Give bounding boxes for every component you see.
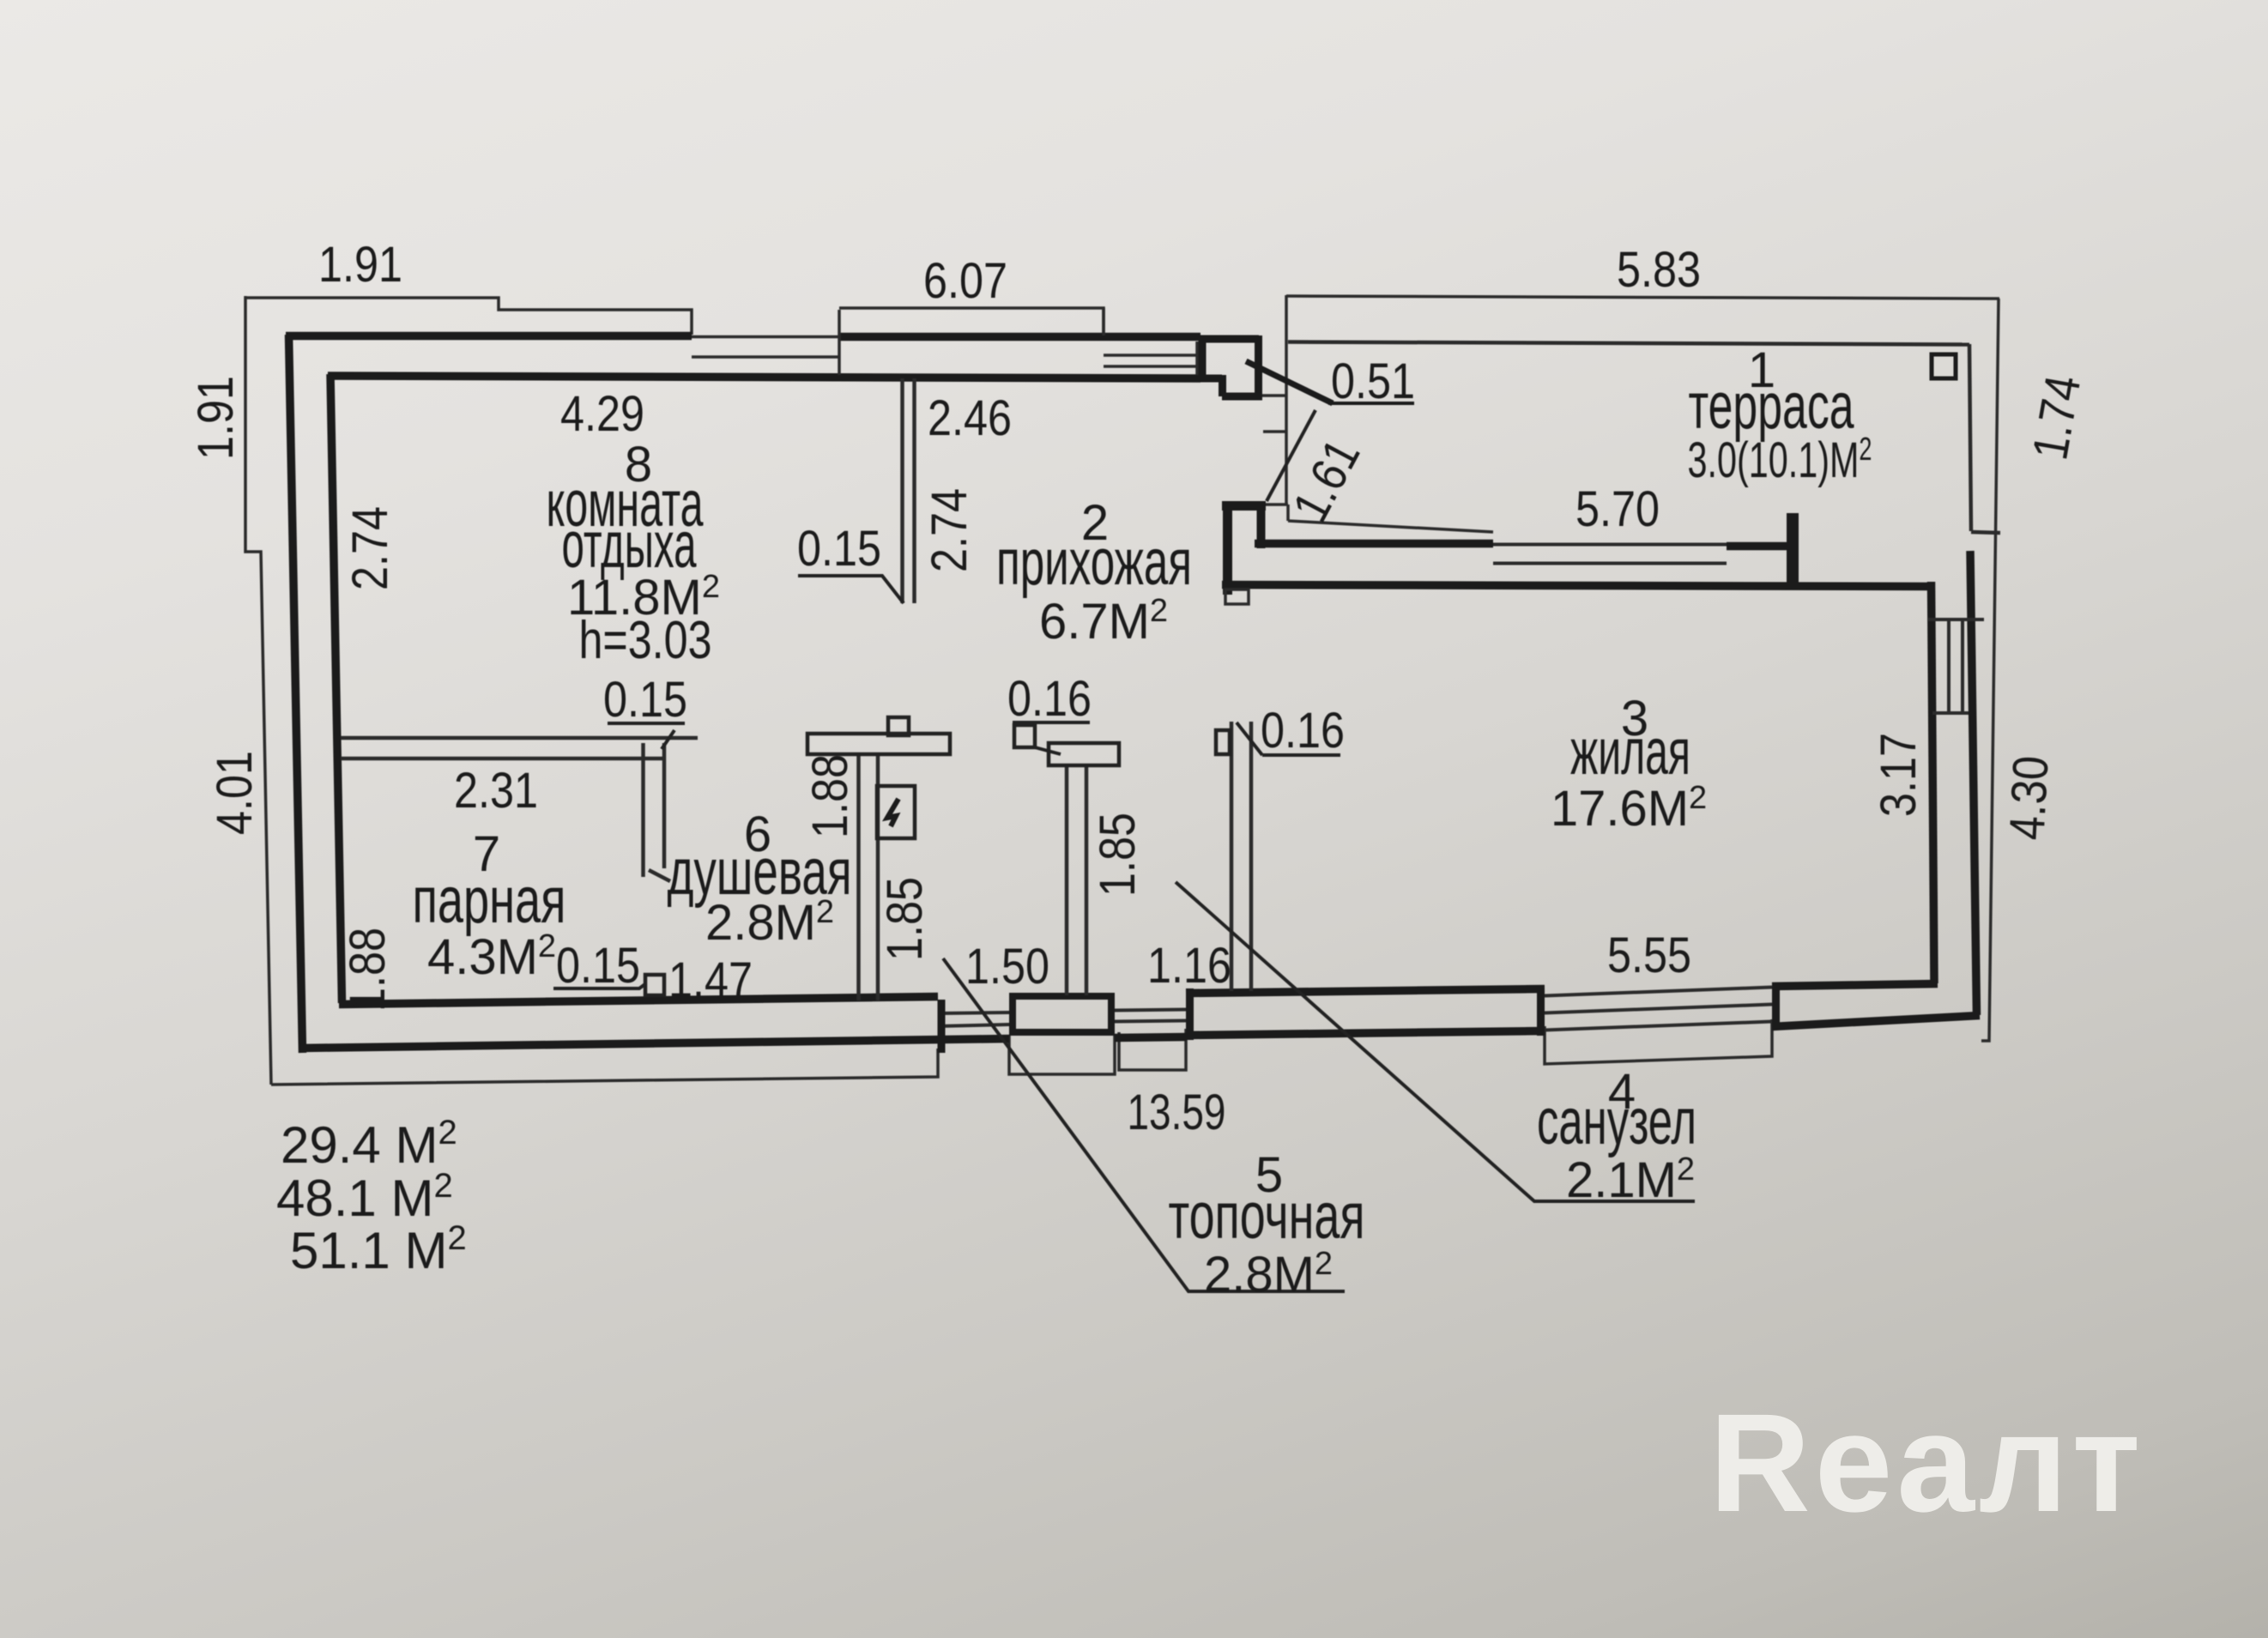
svg-text:прихожая: прихожая <box>996 526 1192 599</box>
svg-text:2.46: 2.46 <box>928 390 1012 446</box>
svg-text:2.8М2: 2.8М2 <box>1204 1246 1333 1303</box>
svg-text:1.85: 1.85 <box>1090 813 1146 897</box>
svg-text:0.15: 0.15 <box>556 938 640 994</box>
svg-text:2.74: 2.74 <box>342 506 398 590</box>
svg-text:4.3М2: 4.3М2 <box>427 928 556 985</box>
svg-text:жилая: жилая <box>1570 716 1690 789</box>
svg-text:17.6М2: 17.6М2 <box>1551 780 1707 837</box>
svg-text:парная: парная <box>413 864 566 937</box>
svg-text:3.17: 3.17 <box>1871 733 1926 817</box>
svg-text:6.7М2: 6.7М2 <box>1039 593 1168 650</box>
svg-text:1.74: 1.74 <box>2022 372 2091 464</box>
svg-text:4.30: 4.30 <box>1999 754 2059 841</box>
svg-text:1.50: 1.50 <box>965 939 1049 994</box>
svg-text:4.29: 4.29 <box>560 386 644 442</box>
svg-text:2.1М2: 2.1М2 <box>1566 1151 1695 1208</box>
svg-text:51.1 М2: 51.1 М2 <box>290 1219 467 1279</box>
svg-text:h=3.03: h=3.03 <box>579 611 712 670</box>
svg-text:2.74: 2.74 <box>922 488 977 572</box>
svg-text:1.47: 1.47 <box>668 952 753 1008</box>
svg-text:3.0(10.1)М2: 3.0(10.1)М2 <box>1688 432 1872 488</box>
svg-text:топочная: топочная <box>1169 1180 1365 1253</box>
svg-text:4.01: 4.01 <box>207 751 263 835</box>
svg-text:2.31: 2.31 <box>454 763 538 819</box>
svg-text:санузел: санузел <box>1537 1085 1696 1158</box>
svg-text:1.91: 1.91 <box>188 376 244 460</box>
svg-text:5.70: 5.70 <box>1576 481 1660 537</box>
svg-text:5.83: 5.83 <box>1617 242 1701 298</box>
svg-text:29.4 М2: 29.4 М2 <box>281 1114 457 1174</box>
svg-text:1.91: 1.91 <box>318 237 402 293</box>
svg-text:0.15: 0.15 <box>797 521 881 577</box>
svg-text:0.51: 0.51 <box>1331 354 1415 409</box>
svg-text:2.8М2: 2.8М2 <box>705 894 834 951</box>
svg-text:1.88: 1.88 <box>802 754 858 838</box>
svg-text:0.15: 0.15 <box>603 672 687 728</box>
svg-text:1.16: 1.16 <box>1147 938 1231 994</box>
svg-text:48.1 М2: 48.1 М2 <box>276 1167 453 1227</box>
svg-text:13.59: 13.59 <box>1128 1085 1226 1140</box>
svg-text:1.88: 1.88 <box>340 928 396 1012</box>
svg-text:1.85: 1.85 <box>877 877 933 961</box>
svg-text:0.16: 0.16 <box>1007 671 1092 727</box>
svg-text:6.07: 6.07 <box>923 253 1007 309</box>
svg-text:0.16: 0.16 <box>1261 703 1345 759</box>
svg-text:5.55: 5.55 <box>1607 928 1691 983</box>
